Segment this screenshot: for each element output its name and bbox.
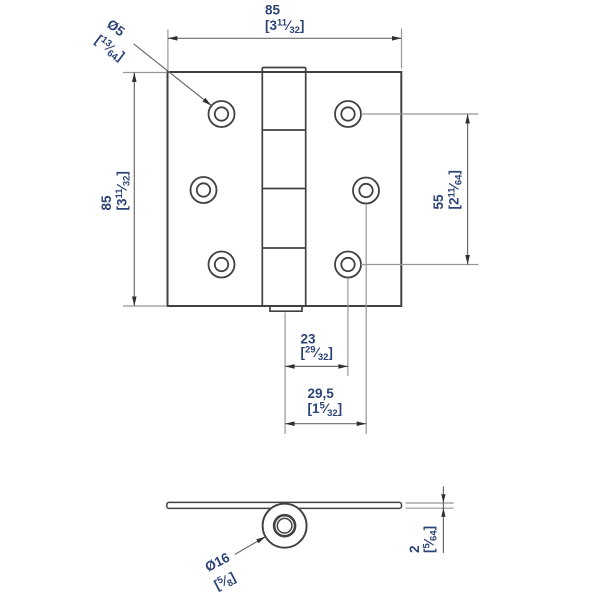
svg-text:55: 55 [431,194,446,210]
svg-text:2: 2 [407,545,422,553]
svg-text:85: 85 [265,2,281,17]
svg-text:85: 85 [99,195,114,211]
svg-text:29,5: 29,5 [308,386,335,401]
